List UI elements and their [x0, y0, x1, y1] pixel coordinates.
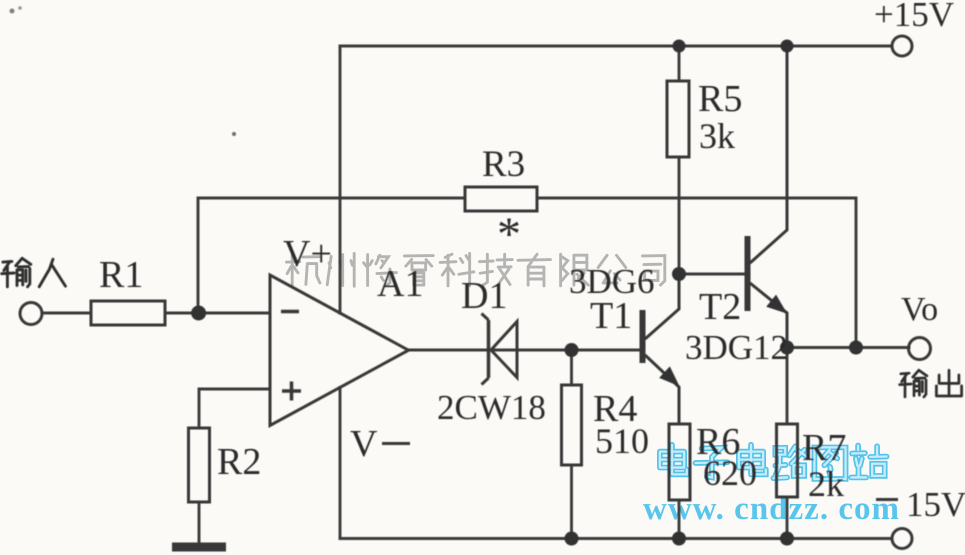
- svg-text:T1: T1: [590, 295, 632, 337]
- svg-text:R2: R2: [217, 441, 261, 483]
- svg-text:Vo: Vo: [901, 291, 938, 328]
- svg-text:2k: 2k: [808, 464, 844, 504]
- svg-text:T2: T2: [699, 286, 741, 328]
- svg-text:R7: R7: [802, 427, 846, 469]
- svg-text:R3: R3: [482, 144, 525, 185]
- svg-text:www. cndzz. com: www. cndzz. com: [643, 491, 900, 527]
- svg-text:620: 620: [703, 453, 757, 493]
- svg-text:*: *: [497, 208, 521, 261]
- svg-text:3DG6: 3DG6: [569, 262, 655, 301]
- svg-text:R1: R1: [99, 254, 143, 296]
- svg-text:510: 510: [595, 421, 649, 461]
- svg-text:3k: 3k: [699, 116, 735, 156]
- svg-text:3DG12: 3DG12: [685, 328, 788, 367]
- svg-text:+15V: +15V: [874, 0, 954, 34]
- svg-text:R5: R5: [698, 78, 742, 120]
- svg-text:15V: 15V: [906, 485, 965, 524]
- svg-text:V: V: [350, 423, 378, 465]
- svg-text:2CW18: 2CW18: [437, 388, 546, 427]
- svg-text:V+: V+: [283, 233, 332, 275]
- svg-text:D1: D1: [461, 275, 507, 317]
- svg-text:A1: A1: [377, 263, 423, 305]
